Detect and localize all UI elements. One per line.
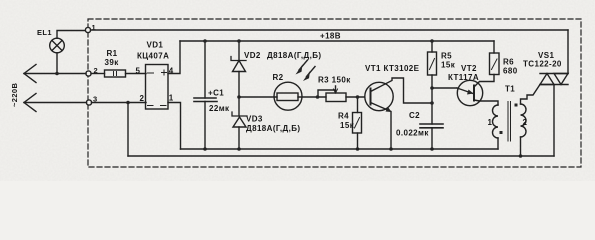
svg-text:VD2: VD2 xyxy=(244,51,261,60)
node: R5 top on +18V rail xyxy=(430,39,434,43)
triac VS1 xyxy=(540,30,568,156)
resistor R6 xyxy=(490,41,500,75)
svg-text:22мк: 22мк xyxy=(209,104,230,113)
transformer T1 winding 1 xyxy=(493,105,503,149)
svg-text:+C1: +C1 xyxy=(208,89,224,98)
wire: zener midpoint to R2 xyxy=(239,96,277,98)
zener diode VD3 xyxy=(232,112,247,149)
wire: bottom mains rail xyxy=(128,155,554,157)
svg-text:2: 2 xyxy=(523,118,528,127)
node: T1 winding 2 bottom on mains rail xyxy=(519,154,523,158)
mains input arrow (bottom) xyxy=(24,94,36,112)
svg-text:КЦ407А: КЦ407А xyxy=(137,52,169,61)
wire: terminal 2 to R1 xyxy=(91,73,105,75)
wire: mains neutral to terminal 3 xyxy=(24,102,87,104)
terminal 2 xyxy=(86,71,91,76)
wire: VD1 pin 1 down to minus bus xyxy=(168,103,181,150)
resistor R1 xyxy=(105,70,126,77)
node: VT1 emitter on minus bus xyxy=(389,147,393,151)
wire: gate path from T1 winding 2 to VS1 gate xyxy=(521,85,541,105)
wire: VD1 pin 4 up to +18V rail xyxy=(168,41,180,74)
dashed border of device box xyxy=(88,19,581,167)
node: junction to bottom mains rail xyxy=(126,101,130,105)
node: VD3 bottom on minus bus xyxy=(237,147,241,151)
svg-text:R3 150к: R3 150к xyxy=(318,76,351,85)
svg-text:15к: 15к xyxy=(441,61,456,70)
svg-text:R6: R6 xyxy=(503,58,514,67)
svg-text:VD3: VD3 xyxy=(246,115,263,124)
svg-text:Д818А(Г,Д,Б): Д818А(Г,Д,Б) xyxy=(246,124,300,133)
zener diode VD2 xyxy=(231,41,246,116)
resistor R4 xyxy=(353,97,362,149)
wire: down to mains bottom rail xyxy=(127,103,129,157)
svg-text:+18В: +18В xyxy=(320,32,341,41)
transformer T1 winding 2 xyxy=(515,104,527,157)
photoresistor R2 xyxy=(274,82,326,110)
wire: +18V rail xyxy=(180,40,494,42)
svg-text:R2: R2 xyxy=(273,73,284,82)
svg-text:VD1: VD1 xyxy=(147,41,164,50)
svg-text:5: 5 xyxy=(136,67,141,76)
svg-text:ТС122-20: ТС122-20 xyxy=(523,60,562,69)
node: emitter junction of VT2 feed xyxy=(430,86,434,90)
svg-text:EL1: EL1 xyxy=(37,28,52,37)
resistor R5 xyxy=(428,41,437,124)
node: R4 bottom on minus bus xyxy=(356,147,360,151)
node: R4 top junction xyxy=(356,95,360,99)
unijunction transistor VT2 xyxy=(457,75,498,106)
capacitor C1 xyxy=(194,41,217,149)
node: R3 tap junction xyxy=(316,95,320,99)
terminal 3 xyxy=(86,100,91,105)
svg-text:VT1 КТ3102Е: VT1 КТ3102Е xyxy=(365,64,420,73)
svg-text:1: 1 xyxy=(488,118,493,127)
svg-text:2: 2 xyxy=(140,94,145,103)
svg-text:C2: C2 xyxy=(409,111,420,120)
lamp EL1 xyxy=(50,31,86,74)
light arrows onto R2 xyxy=(296,60,316,81)
svg-text:0.022мк: 0.022мк xyxy=(396,129,429,138)
svg-text:1: 1 xyxy=(169,94,174,103)
wire: to VT2 emitter xyxy=(432,87,457,89)
wire: mains phase to terminal 2 xyxy=(24,73,86,75)
terminal 1 xyxy=(85,27,90,32)
node: C1 top on +18V rail xyxy=(203,39,207,43)
node: lamp bottom junction xyxy=(55,72,59,76)
wire: minus bus xyxy=(181,148,499,150)
svg-text:39к: 39к xyxy=(105,58,120,67)
svg-text:~220В: ~220В xyxy=(10,83,19,107)
svg-text:R4: R4 xyxy=(338,112,349,121)
node: C2 bottom on minus bus xyxy=(430,147,434,151)
node: VT1 collector junction xyxy=(430,101,434,105)
wire: R1 to VD1 pin 5 xyxy=(126,73,147,75)
capacitor C2 xyxy=(420,124,443,149)
wire: top rail (terminal 1 to VS1 cathode) xyxy=(91,29,569,31)
svg-text:Д818А(Г,Д,Б): Д818А(Г,Д,Б) xyxy=(267,51,321,60)
wire: terminal 3 to VD1 pin 2 xyxy=(92,102,147,104)
variable resistor R3 xyxy=(318,86,365,102)
node: VD2 top on +18V rail xyxy=(237,39,241,43)
transformer T1 core xyxy=(508,102,511,142)
node: C1 bottom on minus bus xyxy=(203,147,207,151)
mains input arrow (top) xyxy=(24,65,36,83)
svg-text:15к: 15к xyxy=(340,121,355,130)
svg-text:R5: R5 xyxy=(441,52,452,61)
node: zener midpoint junction xyxy=(237,95,241,99)
transistor VT1 xyxy=(365,78,432,149)
svg-text:VT2: VT2 xyxy=(461,64,477,73)
svg-text:Т1: Т1 xyxy=(505,85,515,94)
svg-text:680: 680 xyxy=(503,67,518,76)
svg-text:КТ117А: КТ117А xyxy=(448,73,479,82)
bridge rectifier VD1 xyxy=(146,65,169,110)
svg-text:R1: R1 xyxy=(107,49,118,58)
